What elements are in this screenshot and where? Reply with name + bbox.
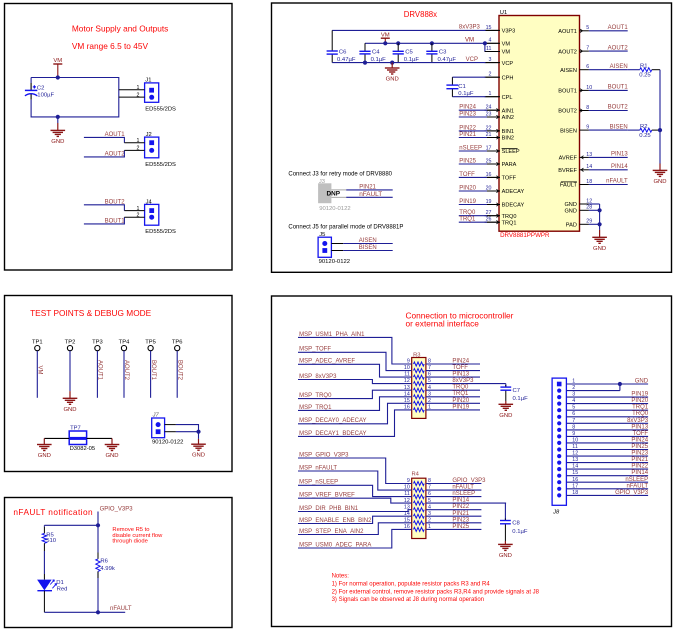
svg-text:PIN14: PIN14 — [611, 164, 628, 170]
svg-text:CPH: CPH — [502, 75, 514, 81]
svg-text:PIN24: PIN24 — [459, 105, 476, 111]
svg-text:PAD: PAD — [566, 223, 577, 229]
svg-text:VCP: VCP — [466, 57, 478, 63]
svg-text:AISEN: AISEN — [359, 238, 377, 244]
svg-text:PIN25: PIN25 — [452, 524, 469, 530]
svg-text:nFAULT: nFAULT — [606, 179, 628, 185]
svg-text:TOFF: TOFF — [459, 172, 475, 178]
svg-text:DRV8881PPWPR: DRV8881PPWPR — [500, 232, 550, 239]
svg-text:GND: GND — [499, 413, 512, 419]
svg-text:8xV3P3: 8xV3P3 — [459, 25, 481, 31]
svg-text:AOUT1: AOUT1 — [558, 29, 577, 35]
svg-text:12: 12 — [404, 378, 410, 384]
svg-text:PIN23: PIN23 — [631, 451, 648, 457]
svg-text:1: 1 — [137, 206, 140, 212]
svg-text:BISEN: BISEN — [359, 245, 377, 251]
svg-text:PIN22: PIN22 — [631, 464, 648, 470]
svg-text:10: 10 — [404, 485, 410, 491]
svg-text:PIN19: PIN19 — [631, 392, 648, 398]
svg-text:PIN23: PIN23 — [459, 112, 476, 118]
svg-text:FAULT: FAULT — [560, 183, 578, 189]
svg-text:VM: VM — [53, 58, 62, 64]
svg-text:15: 15 — [404, 517, 410, 523]
svg-text:BISEN: BISEN — [560, 128, 577, 134]
svg-text:nFAULT notification: nFAULT notification — [13, 507, 93, 517]
svg-text:90120-0122: 90120-0122 — [319, 206, 350, 212]
svg-text:AOUT2: AOUT2 — [608, 45, 629, 51]
svg-text:DRV888x: DRV888x — [404, 10, 437, 19]
svg-text:9: 9 — [407, 478, 410, 484]
svg-text:13: 13 — [404, 504, 410, 510]
svg-text:PIN25: PIN25 — [631, 444, 648, 450]
svg-text:10: 10 — [586, 85, 592, 91]
svg-text:TRQ0: TRQ0 — [452, 385, 469, 391]
svg-text:PIN23: PIN23 — [452, 517, 469, 523]
svg-text:14: 14 — [404, 391, 410, 397]
svg-text:SLEEP: SLEEP — [502, 149, 520, 155]
svg-text:C7: C7 — [513, 388, 521, 394]
svg-text:14: 14 — [586, 164, 592, 170]
svg-text:D1: D1 — [56, 580, 64, 586]
svg-text:CPL: CPL — [502, 95, 513, 101]
svg-text:AOUT1: AOUT1 — [608, 25, 629, 31]
svg-text:PIN13: PIN13 — [611, 152, 628, 158]
svg-text:AISEN: AISEN — [610, 64, 628, 70]
svg-text:PIN21: PIN21 — [631, 457, 648, 463]
svg-text:AIN2: AIN2 — [502, 115, 514, 121]
svg-text:AVREF: AVREF — [559, 156, 578, 162]
svg-text:BOUT1: BOUT1 — [558, 89, 577, 95]
svg-text:nFAULT: nFAULT — [452, 485, 474, 491]
svg-text:13: 13 — [586, 152, 592, 158]
svg-text:GND: GND — [564, 202, 576, 208]
svg-text:9: 9 — [407, 359, 410, 365]
svg-text:BOUT2: BOUT2 — [608, 105, 629, 111]
svg-text:GND: GND — [38, 453, 51, 459]
svg-text:TRQ1: TRQ1 — [502, 220, 517, 226]
svg-text:0.25: 0.25 — [639, 73, 651, 79]
svg-text:1: 1 — [137, 138, 140, 144]
svg-text:C3: C3 — [439, 49, 447, 55]
svg-text:0.1µF: 0.1µF — [512, 529, 528, 535]
svg-text:90120-0122: 90120-0122 — [319, 259, 350, 265]
svg-text:GPIO_V3P3: GPIO_V3P3 — [452, 478, 486, 484]
svg-text:AISEN: AISEN — [560, 68, 577, 74]
svg-text:Connect J5 for parallel mode o: Connect J5 for parallel mode of DRV8881P — [288, 225, 403, 231]
svg-text:AIN1: AIN1 — [502, 108, 514, 114]
svg-text:GND: GND — [593, 246, 606, 252]
svg-text:TRQ1: TRQ1 — [452, 391, 469, 397]
svg-text:BOUT1: BOUT1 — [608, 85, 629, 91]
svg-text:R1: R1 — [640, 64, 648, 70]
svg-text:PIN14: PIN14 — [631, 470, 648, 476]
svg-text:1: 1 — [137, 85, 140, 91]
svg-text:PIN22: PIN22 — [459, 125, 476, 131]
svg-text:PIN22: PIN22 — [452, 504, 469, 510]
svg-text:16: 16 — [404, 405, 410, 411]
svg-text:J8: J8 — [552, 509, 560, 515]
svg-text:C1: C1 — [458, 84, 466, 90]
svg-text:18: 18 — [586, 179, 592, 185]
svg-text:BOUT1: BOUT1 — [150, 360, 156, 381]
svg-text:TP3: TP3 — [92, 339, 103, 345]
svg-text:C5: C5 — [405, 49, 413, 55]
svg-text:through diode: through diode — [112, 539, 147, 545]
svg-text:2: 2 — [137, 146, 140, 152]
svg-text:PIN14: PIN14 — [452, 498, 469, 504]
svg-text:nSLEEP: nSLEEP — [459, 146, 482, 152]
svg-text:C8: C8 — [512, 521, 520, 527]
svg-text:14: 14 — [404, 511, 410, 517]
svg-text:5: 5 — [586, 25, 589, 31]
svg-text:VM: VM — [37, 366, 43, 375]
svg-text:TP1: TP1 — [32, 339, 43, 345]
svg-text:11: 11 — [404, 491, 410, 497]
svg-text:VM range 6.5 to 45V: VM range 6.5 to 45V — [72, 41, 149, 51]
svg-text:AOUT1: AOUT1 — [97, 360, 103, 381]
svg-text:nSLEEP: nSLEEP — [625, 477, 648, 483]
svg-text:nFAULT: nFAULT — [627, 483, 649, 489]
svg-text:DNP: DNP — [327, 191, 341, 198]
svg-text:Red: Red — [57, 586, 68, 592]
svg-text:TEST POINTS & DEBUG MODE: TEST POINTS & DEBUG MODE — [30, 308, 152, 318]
svg-text:2) For external control, remov: 2) For external control, remove resistor… — [332, 589, 540, 595]
svg-text:PIN19: PIN19 — [452, 404, 469, 410]
svg-text:BISEN: BISEN — [610, 124, 628, 130]
svg-text:10: 10 — [404, 365, 410, 371]
svg-text:nFAULT: nFAULT — [110, 606, 132, 612]
svg-text:VM: VM — [502, 50, 511, 56]
svg-text:2: 2 — [137, 92, 140, 98]
svg-text:TOFF: TOFF — [633, 431, 649, 437]
svg-text:7: 7 — [586, 46, 589, 52]
svg-text:GND: GND — [386, 77, 399, 83]
svg-text:BOUT2: BOUT2 — [176, 360, 182, 381]
svg-text:R6: R6 — [100, 559, 108, 565]
svg-text:BDECAY: BDECAY — [502, 203, 525, 209]
svg-text:or external interface: or external interface — [406, 318, 480, 328]
svg-text:PIN20: PIN20 — [459, 186, 476, 192]
svg-text:TOFF: TOFF — [452, 365, 468, 371]
svg-text:BVREF: BVREF — [558, 168, 577, 174]
svg-text:PIN24: PIN24 — [631, 437, 648, 443]
svg-text:R2: R2 — [640, 124, 648, 130]
svg-text:U1: U1 — [500, 10, 507, 16]
svg-text:GND: GND — [105, 453, 118, 459]
svg-text:nSLEEP: nSLEEP — [452, 491, 475, 497]
svg-text:0.1µF: 0.1µF — [513, 396, 529, 402]
svg-text:4.99k: 4.99k — [100, 566, 114, 572]
svg-text:GND: GND — [63, 407, 76, 413]
svg-text:GND: GND — [51, 139, 64, 145]
svg-text:8: 8 — [586, 105, 589, 111]
svg-text:11: 11 — [404, 372, 410, 378]
svg-text:BOUT2: BOUT2 — [558, 109, 577, 115]
svg-text:9: 9 — [586, 125, 589, 131]
svg-text:C6: C6 — [339, 49, 347, 55]
svg-text:GND: GND — [653, 179, 666, 185]
svg-text:VM: VM — [381, 32, 390, 38]
svg-text:PIN21: PIN21 — [452, 511, 469, 517]
svg-text:TP6: TP6 — [172, 339, 183, 345]
svg-text:PIN13: PIN13 — [631, 424, 648, 430]
svg-text:GND: GND — [635, 379, 649, 385]
svg-text:Motor Supply and Outputs: Motor Supply and Outputs — [72, 23, 168, 33]
svg-text:PIN20: PIN20 — [631, 398, 648, 404]
svg-text:C4: C4 — [372, 49, 380, 55]
svg-text:ED555/2DS: ED555/2DS — [145, 162, 176, 168]
svg-text:AOUT2: AOUT2 — [558, 49, 577, 55]
svg-text:AOUT2: AOUT2 — [123, 360, 129, 381]
svg-text:PIN20: PIN20 — [452, 398, 469, 404]
svg-text:PIN19: PIN19 — [459, 199, 476, 205]
svg-text:VM: VM — [465, 38, 474, 44]
svg-text:TRQ0: TRQ0 — [502, 214, 517, 220]
svg-text:6: 6 — [586, 64, 589, 70]
svg-text:R3: R3 — [413, 353, 420, 359]
svg-text:Notes:: Notes: — [332, 573, 350, 579]
svg-text:8xV3P3: 8xV3P3 — [627, 418, 649, 424]
svg-text:PIN25: PIN25 — [459, 159, 476, 165]
svg-text:TP2: TP2 — [65, 339, 76, 345]
svg-text:BIN2: BIN2 — [502, 136, 514, 142]
svg-text:VCP: VCP — [502, 61, 514, 67]
svg-text:TRQ1: TRQ1 — [459, 217, 476, 223]
svg-text:PIN13: PIN13 — [452, 372, 469, 378]
svg-text:PIN21: PIN21 — [459, 132, 476, 138]
svg-text:C2: C2 — [37, 86, 45, 92]
svg-text:TRQ0: TRQ0 — [459, 210, 476, 216]
svg-text:Connect J3 for retry mode of D: Connect J3 for retry mode of DRV8880 — [288, 172, 392, 178]
svg-text:ED555/2DS: ED555/2DS — [145, 107, 176, 113]
svg-text:TP4: TP4 — [119, 339, 130, 345]
svg-text:PARA: PARA — [502, 162, 517, 168]
svg-text:100µF: 100µF — [37, 92, 54, 98]
svg-text:TRQ1: TRQ1 — [632, 405, 649, 411]
svg-text:510: 510 — [46, 538, 57, 544]
svg-text:GPIO_V3P3: GPIO_V3P3 — [100, 506, 134, 512]
svg-text:ED555/2DS: ED555/2DS — [145, 229, 176, 235]
svg-text:13: 13 — [404, 385, 410, 391]
svg-text:8xV3P3: 8xV3P3 — [452, 378, 474, 384]
svg-text:15: 15 — [404, 398, 410, 404]
svg-text:PIN21: PIN21 — [359, 184, 376, 190]
svg-text:R4: R4 — [412, 472, 420, 478]
svg-text:GND: GND — [499, 553, 512, 559]
svg-text:GPIO_V3P3: GPIO_V3P3 — [615, 490, 649, 496]
svg-text:90120-0122: 90120-0122 — [152, 439, 183, 445]
svg-text:0.1µF: 0.1µF — [458, 91, 474, 97]
svg-text:12: 12 — [404, 498, 410, 504]
svg-text:TOFF: TOFF — [502, 176, 517, 182]
svg-text:VM: VM — [502, 42, 511, 48]
svg-text:D3082-05: D3082-05 — [70, 446, 95, 452]
svg-text:V3P3: V3P3 — [502, 29, 516, 35]
svg-text:nFAULT: nFAULT — [359, 191, 382, 198]
svg-text:PIN24: PIN24 — [452, 359, 469, 365]
svg-text:TP5: TP5 — [145, 339, 156, 345]
svg-text:16: 16 — [404, 524, 410, 530]
svg-text:1) For normal operation, popul: 1) For normal operation, populate resist… — [332, 581, 491, 587]
svg-text:2: 2 — [137, 212, 140, 218]
svg-text:3) Signals can be observed at: 3) Signals can be observed at J8 during … — [332, 597, 484, 603]
svg-text:TRQ0: TRQ0 — [632, 411, 649, 417]
svg-text:BIN1: BIN1 — [502, 129, 514, 135]
svg-text:ADECAY: ADECAY — [502, 189, 525, 195]
svg-text:0.25: 0.25 — [639, 133, 651, 139]
svg-text:GND: GND — [564, 209, 576, 215]
svg-text:GND: GND — [192, 453, 205, 459]
